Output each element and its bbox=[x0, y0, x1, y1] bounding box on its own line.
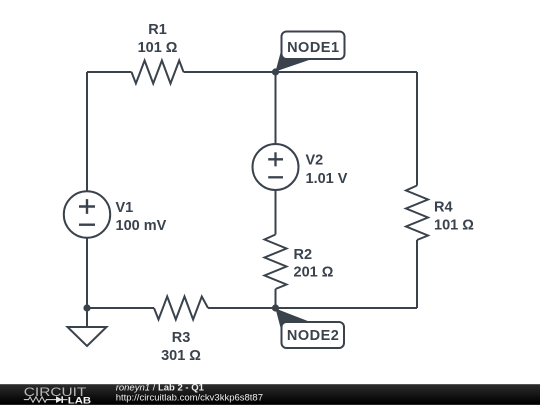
junction dot NODE1 bbox=[272, 68, 279, 75]
wire top-right (R1 to right rail, through NODE1 junction) bbox=[184, 71, 418, 73]
svg-text:1.01 V: 1.01 V bbox=[306, 171, 348, 187]
wire middle upper (NODE1 to V2) bbox=[275, 72, 277, 145]
junction dot NODE2 bbox=[272, 304, 279, 311]
wire middle (V2 to R2) bbox=[275, 190, 277, 235]
CircuitLab logo resistor-diode symbol bbox=[24, 396, 68, 403]
node NODE2 flag bbox=[276, 309, 345, 349]
svg-text:101 Ω: 101 Ω bbox=[138, 40, 178, 56]
svg-text:http://circuitlab.com/ckv3kkp6: http://circuitlab.com/ckv3kkp6s8t87 bbox=[116, 393, 263, 404]
voltage source V2 bbox=[253, 144, 348, 190]
node NODE1 flag bbox=[276, 32, 345, 72]
wire left rail lower (V1 to bottom corner) bbox=[86, 238, 88, 308]
wire bottom-left (ground corner to R3) bbox=[87, 307, 154, 309]
svg-text:101 Ω: 101 Ω bbox=[434, 217, 474, 233]
svg-text:NODE2: NODE2 bbox=[287, 328, 339, 344]
resistor R1 bbox=[132, 22, 184, 83]
svg-text:V2: V2 bbox=[306, 152, 324, 168]
svg-text:R4: R4 bbox=[434, 200, 453, 216]
resistor R3 bbox=[154, 297, 208, 364]
wire right rail lower (R4 to bottom corner) bbox=[416, 240, 418, 308]
junction dot ground corner bbox=[83, 304, 90, 311]
svg-text:301 Ω: 301 Ω bbox=[161, 348, 201, 364]
voltage source V1 bbox=[64, 191, 167, 237]
resistor R2 bbox=[265, 235, 334, 290]
CircuitLab logo text CIRCUIT bbox=[24, 385, 86, 399]
wire bottom-right (R3 to right corner, through NODE2 junction) bbox=[208, 307, 417, 309]
wire left rail upper (to V1) bbox=[86, 72, 88, 191]
ground bbox=[68, 308, 107, 346]
svg-text:R1: R1 bbox=[148, 22, 167, 38]
svg-text:201 Ω: 201 Ω bbox=[294, 265, 334, 281]
wire top-left (from left rail corner to R1) bbox=[87, 71, 132, 73]
svg-text:R2: R2 bbox=[294, 247, 313, 263]
svg-text:R3: R3 bbox=[172, 330, 191, 346]
svg-text:NODE1: NODE1 bbox=[287, 40, 339, 56]
svg-text:100 mV: 100 mV bbox=[116, 218, 167, 234]
wire middle lower (R2 to NODE2 junction) bbox=[275, 289, 277, 308]
svg-text:V1: V1 bbox=[116, 200, 134, 216]
wire right rail upper (to R4) bbox=[416, 72, 418, 186]
CircuitLab logo text LAB bbox=[68, 396, 91, 405]
svg-text:LAB: LAB bbox=[68, 396, 91, 405]
footer title text bbox=[116, 382, 263, 403]
footer bar bbox=[0, 384, 540, 405]
resistor R4 bbox=[406, 186, 474, 241]
